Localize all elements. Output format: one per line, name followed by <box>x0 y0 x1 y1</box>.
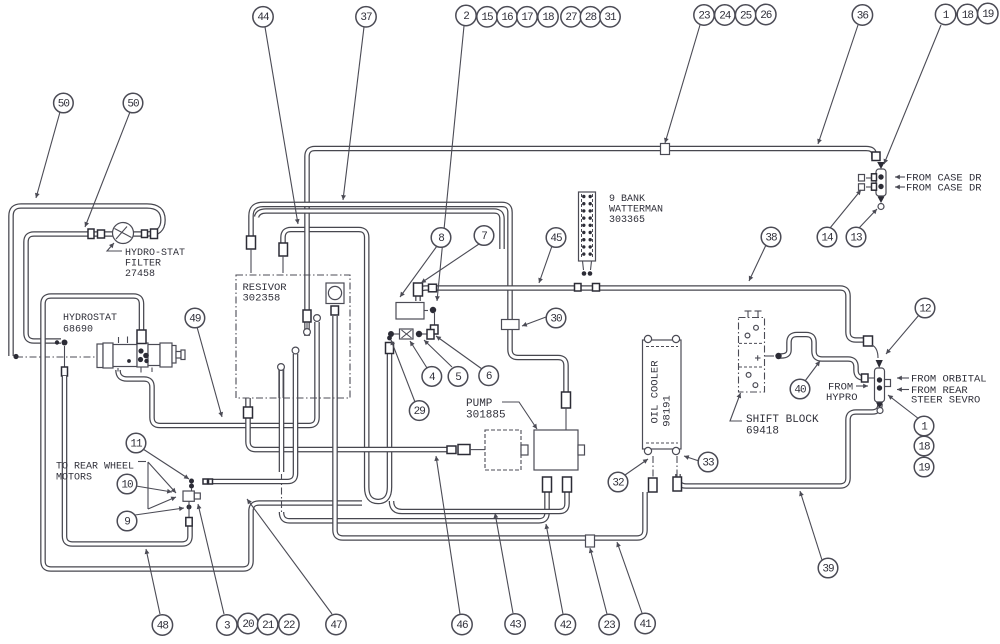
callout balloon 18 <box>957 4 977 24</box>
svg-text:PUMP: PUMP <box>466 398 493 410</box>
svg-text:OIL COOLER: OIL COOLER <box>650 360 662 424</box>
svg-text:50: 50 <box>58 98 70 110</box>
svg-text:FROM ORBITAL: FROM ORBITAL <box>911 374 987 386</box>
svg-text:32: 32 <box>612 477 624 489</box>
svg-text:27: 27 <box>565 12 577 24</box>
svg-text:HYPRO: HYPRO <box>826 392 858 404</box>
svg-text:TO REAR WHEEL: TO REAR WHEEL <box>56 462 134 473</box>
svg-text:33: 33 <box>702 457 714 469</box>
svg-text:HYDROSTAT: HYDROSTAT <box>63 313 117 324</box>
leader 43 <box>495 513 513 613</box>
leader 41 <box>617 542 642 613</box>
leader 13 <box>859 209 877 228</box>
lower manifold fitting (items 1/12/18/19) <box>862 336 891 414</box>
wire hose from rear-wheel tee to reservoir <box>213 354 296 482</box>
leader 42 <box>546 524 563 614</box>
svg-text:12: 12 <box>919 303 931 315</box>
cooler inlet fitting (from hose 43) <box>649 478 658 492</box>
clamp 30 on hose 37 <box>502 320 520 330</box>
leader 1 top <box>884 25 941 164</box>
callout balloon 6 <box>479 366 499 386</box>
svg-text:46: 46 <box>456 620 468 632</box>
svg-text:13: 13 <box>850 232 862 244</box>
callout balloon 19 <box>978 3 998 23</box>
annotation FROM REAR STEER SEVRO <box>897 389 909 391</box>
svg-text:38: 38 <box>765 232 777 244</box>
wire hose 42 (reservoir to pump left port, lower run) <box>279 368 285 472</box>
leader 44 <box>265 27 298 224</box>
svg-text:27458: 27458 <box>125 269 155 280</box>
callout balloon 49 <box>185 308 205 328</box>
callout balloon 48 <box>152 615 172 635</box>
callout balloon 46 <box>452 614 472 634</box>
svg-text:22: 22 <box>283 620 295 632</box>
svg-text:11: 11 <box>130 438 143 450</box>
svg-text:40: 40 <box>794 384 806 396</box>
leader 38 <box>749 245 766 281</box>
svg-text:FROM CASE DR: FROM CASE DR <box>906 183 982 195</box>
callout balloon 43 <box>505 614 525 634</box>
annotation FROM ORBITAL <box>897 377 909 379</box>
wire hose 47 (hydrostat bottom to reservoir) <box>118 322 317 426</box>
svg-text:18: 18 <box>918 441 930 453</box>
callout balloon 41 <box>635 613 655 633</box>
callout balloon 37 <box>356 7 376 27</box>
svg-text:7: 7 <box>481 231 487 243</box>
svg-text:36: 36 <box>857 10 869 22</box>
svg-text:SHIFT BLOCK: SHIFT BLOCK <box>746 414 819 426</box>
wire hose 46 (reservoir to pump inlet) <box>248 398 447 450</box>
pump bottom port fittings <box>543 477 552 492</box>
callout balloon 11 <box>126 433 146 453</box>
callout balloon 29 <box>409 401 429 421</box>
callout balloon 22 <box>279 614 299 634</box>
annotation FROM CASE DR (lower) <box>895 186 905 188</box>
callout balloon 23 <box>599 614 619 634</box>
callout balloon 1 <box>914 416 934 436</box>
callout balloon 38 <box>761 227 781 247</box>
callout balloon 13 <box>846 227 866 247</box>
callout balloon 25 <box>735 5 755 25</box>
svg-text:69418: 69418 <box>746 426 779 438</box>
leader 3 <box>198 504 224 614</box>
wire hose 37 twin run (inner pair) <box>257 211 503 249</box>
svg-text:301885: 301885 <box>466 410 506 422</box>
callout balloon 5 <box>448 367 468 387</box>
reservoir suction tube A <box>278 364 285 371</box>
reservoir RESIVOR 302358 (dashed tank outline) <box>236 275 350 398</box>
svg-text:17: 17 <box>521 12 533 24</box>
watterman outlet stems <box>583 261 584 270</box>
svg-text:28: 28 <box>585 12 597 24</box>
pump 301885 left section <box>485 430 521 470</box>
callout balloon 42 <box>555 614 575 634</box>
pump top port fitting <box>562 392 571 408</box>
leader 48 <box>146 549 160 614</box>
wire hose 43 (reservoir cap to oil cooler) <box>335 316 645 538</box>
callout balloon 39 <box>818 558 838 578</box>
svg-text:42: 42 <box>560 620 572 632</box>
callout balloon 15 <box>477 7 497 27</box>
svg-text:2: 2 <box>463 11 469 23</box>
svg-text:37: 37 <box>360 12 372 24</box>
svg-text:26: 26 <box>760 10 772 22</box>
union fitting on hose 46 drop <box>244 407 253 418</box>
reservoir filler cap <box>326 283 344 304</box>
leader 11 <box>143 449 189 479</box>
callout balloon 44 <box>253 7 273 27</box>
reservoir suction tube B <box>292 347 299 354</box>
pump inlet fittings (hose 46) <box>447 446 456 454</box>
callout balloon 30 <box>546 308 566 328</box>
callout balloon 23 <box>694 5 714 25</box>
callout balloon 10 <box>117 474 137 494</box>
hidden suction line (dash-dot) to hydrostat <box>16 356 97 358</box>
callout balloon 17 <box>517 7 537 27</box>
callout balloon 27 <box>561 7 581 27</box>
leader 2 <box>437 26 464 301</box>
leader 40 <box>805 361 820 381</box>
svg-text:9: 9 <box>124 516 130 528</box>
leader 4 <box>410 341 427 368</box>
leader 6 <box>436 336 482 369</box>
fitting at start of hose 45 <box>429 284 437 292</box>
reservoir hose 44 end fitting <box>303 310 311 322</box>
callout balloon 31 <box>600 7 620 27</box>
callout balloon 20 <box>238 613 258 633</box>
svg-text:302358: 302358 <box>243 293 281 305</box>
leader 23 bottom <box>590 548 607 614</box>
svg-text:15: 15 <box>481 12 493 24</box>
upper manifold fitting (items 1/13/14) <box>859 152 887 210</box>
wire hose 50 loop (hydro-stat filter circuit) <box>11 206 163 356</box>
wire hose 39 (manifold to oil cooler bottom) <box>678 404 880 486</box>
leader 47 <box>247 499 332 614</box>
tee fitting under filter loop <box>62 340 68 346</box>
svg-text:18: 18 <box>542 12 554 24</box>
svg-text:8: 8 <box>438 233 444 245</box>
leader 45 <box>539 246 552 283</box>
leader 1 side <box>888 395 919 419</box>
leader 12 <box>886 315 919 354</box>
leader 37 <box>343 27 364 200</box>
svg-text:50: 50 <box>127 98 139 110</box>
svg-text:41: 41 <box>639 619 652 631</box>
svg-text:303365: 303365 <box>609 215 645 226</box>
callout balloon 50 <box>123 93 143 113</box>
leader 49 <box>197 327 222 417</box>
leader shift block label <box>730 393 742 421</box>
clamp 23 on top hose <box>661 144 670 155</box>
svg-text:18: 18 <box>962 10 974 22</box>
wire hose 45/38 (valve to lower manifold) <box>418 288 863 340</box>
callout balloon 8 <box>431 228 451 248</box>
leader 36 <box>818 25 858 144</box>
hydro-stat filter 27458 <box>88 223 158 244</box>
hydrostat pump 68690 <box>97 337 185 373</box>
tee fitting item 6 right of valve block <box>424 310 428 312</box>
svg-text:49: 49 <box>189 313 201 325</box>
hydrostat top port fitting <box>137 330 146 344</box>
callout balloon 32 <box>608 472 628 492</box>
svg-text:6: 6 <box>486 371 492 383</box>
svg-text:9 BANK: 9 BANK <box>609 194 645 205</box>
return hose reservoir end fitting <box>279 243 288 256</box>
fitting row items 4/5 <box>388 331 394 337</box>
svg-text:20: 20 <box>242 619 254 631</box>
svg-text:19: 19 <box>982 9 994 21</box>
callout balloon 36 <box>852 5 872 25</box>
callout balloon 26 <box>756 4 776 24</box>
svg-text:29: 29 <box>414 406 426 418</box>
svg-text:HYDRO-STAT: HYDRO-STAT <box>125 248 185 259</box>
svg-text:WATTERMAN: WATTERMAN <box>609 205 663 216</box>
svg-text:3: 3 <box>224 620 230 632</box>
svg-text:FILTER: FILTER <box>125 259 161 270</box>
leader filter label <box>107 243 122 251</box>
shift block outlet fitting <box>765 355 775 357</box>
svg-text:STEER SEVRO: STEER SEVRO <box>911 395 980 407</box>
callout balloon 9 <box>117 511 137 531</box>
callout balloon 47 <box>326 614 346 634</box>
svg-text:44: 44 <box>257 12 270 24</box>
rear wheel motor tee block <box>183 491 194 501</box>
leader 8 <box>400 246 437 297</box>
callout balloon 2 <box>456 5 476 25</box>
callout balloon 14 <box>817 227 837 247</box>
callout balloon 24 <box>715 5 735 25</box>
svg-text:MOTORS: MOTORS <box>56 473 92 484</box>
leader pump label <box>502 402 537 429</box>
9 bank watterman 303365 <box>579 192 596 261</box>
callout balloon 1 <box>935 4 955 24</box>
svg-text:98191: 98191 <box>662 395 674 427</box>
wire hose 42 lower run <box>282 492 548 521</box>
callout balloon 7 <box>474 226 494 246</box>
wire hose pump right port lower run <box>392 492 568 512</box>
wire hose to rear-wheel tee (lower left inner loop) <box>65 376 191 544</box>
svg-text:31: 31 <box>604 12 617 24</box>
svg-text:19: 19 <box>918 462 930 474</box>
callout balloon 40 <box>790 379 810 399</box>
svg-text:10: 10 <box>121 479 133 491</box>
leader 30 <box>522 317 546 326</box>
callout balloon 3 <box>217 615 237 635</box>
svg-text:24: 24 <box>719 10 732 22</box>
svg-text:45: 45 <box>550 233 562 245</box>
leader 50 b <box>85 112 130 227</box>
valve block (item 2) <box>396 303 424 320</box>
leader 29 <box>391 340 415 402</box>
svg-text:16: 16 <box>501 12 513 24</box>
svg-text:68690: 68690 <box>63 325 93 336</box>
wire hose 37 (reservoir to pump top port) <box>251 204 566 392</box>
fan leader to tee block <box>138 461 146 463</box>
wire hose 44/36 (reservoir top to upper manifold) <box>307 149 874 337</box>
wire hose 48 (big outer loop: hydrostat top around bottom) <box>43 296 362 569</box>
leader 50 a <box>36 112 60 198</box>
wire hose 40 (shift block to lower manifold) <box>780 335 867 379</box>
pump 301885 right section <box>534 430 578 470</box>
svg-text:30: 30 <box>550 313 562 325</box>
callout balloon 18 <box>538 7 558 27</box>
callout balloon 45 <box>546 228 566 248</box>
svg-text:21: 21 <box>262 620 275 632</box>
oil cooler 98191 <box>643 335 682 454</box>
callout balloon 16 <box>497 7 517 27</box>
leader 33 <box>684 456 699 461</box>
leader 9 <box>135 508 184 515</box>
reservoir suction tube D <box>314 315 321 322</box>
leader 5 <box>424 340 452 367</box>
leader 10 <box>136 486 172 492</box>
callout balloon 18 <box>914 436 934 456</box>
callout balloon 50 <box>54 93 74 113</box>
shift block 69418 <box>739 311 765 392</box>
callout balloon 4 <box>422 367 442 387</box>
leader 46 <box>436 456 460 614</box>
svg-text:23: 23 <box>603 620 615 632</box>
leader 32 <box>625 459 648 475</box>
svg-text:5: 5 <box>455 372 461 384</box>
callout balloon 33 <box>698 452 718 472</box>
elbow fitting item 7 on valve block <box>414 283 423 296</box>
leader 14 <box>830 190 861 228</box>
hose 37 reservoir end fitting <box>247 236 256 249</box>
svg-text:39: 39 <box>822 563 834 575</box>
fitting at top of pilot hose <box>386 343 394 354</box>
leader 7 <box>421 244 479 283</box>
callout balloon 12 <box>915 298 935 318</box>
svg-text:23: 23 <box>698 10 710 22</box>
annotation FROM CASE DR (upper) <box>895 176 905 178</box>
cooler outlet fitting (to hose 39) <box>673 477 682 491</box>
wire hose return loop (reservoir top / valve pilot) <box>283 230 390 502</box>
callout balloon 21 <box>258 614 278 634</box>
leader 23 top <box>665 25 700 143</box>
svg-text:14: 14 <box>821 232 834 244</box>
clamp 23 on cooler hose <box>586 535 595 547</box>
svg-text:25: 25 <box>740 10 752 22</box>
svg-text:47: 47 <box>330 620 342 632</box>
callout balloon 28 <box>580 7 600 27</box>
callout balloon 19 <box>914 457 934 477</box>
svg-text:43: 43 <box>509 619 521 631</box>
svg-text:48: 48 <box>157 620 169 632</box>
leader 39 <box>800 491 822 560</box>
